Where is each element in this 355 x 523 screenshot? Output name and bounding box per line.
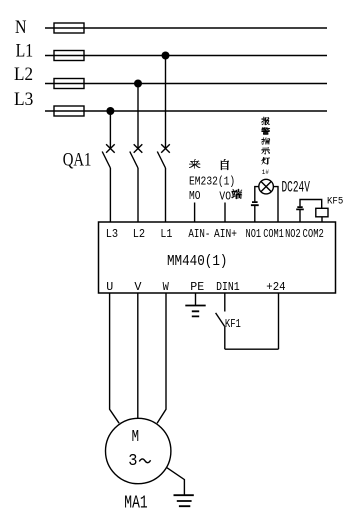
wire bus to QA1 pole 2 <box>137 84 139 150</box>
svg-text:MM440(1): MM440(1) <box>167 254 228 270</box>
label 报警指示灯 (vertical) <box>262 117 270 164</box>
wire QA1 pole 2 to box <box>137 168 139 222</box>
converter MM440(1) box <box>99 222 336 293</box>
svg-text:NO1: NO1 <box>246 227 262 241</box>
label 来 <box>189 160 200 169</box>
svg-text:COM1: COM1 <box>263 227 284 241</box>
junction L1 tap <box>162 52 170 60</box>
fuse on N <box>54 23 84 33</box>
svg-text:L1: L1 <box>160 227 172 241</box>
wire DIN1 down <box>224 293 226 312</box>
battery cell B2 plates <box>296 207 304 209</box>
bus N <box>45 27 327 29</box>
char 示 <box>262 147 270 154</box>
ground PE <box>185 306 205 317</box>
svg-text:+24: +24 <box>266 280 285 294</box>
motor MA1 circle <box>106 418 171 483</box>
wire battery to KF5 <box>300 200 322 209</box>
svg-text:COM2: COM2 <box>303 227 324 241</box>
svg-text:W: W <box>163 280 170 294</box>
breaker QA1 pole 1 contact x <box>106 144 115 153</box>
svg-text:L3: L3 <box>14 89 33 110</box>
svg-text:L2: L2 <box>133 227 145 241</box>
svg-text:N: N <box>15 17 27 38</box>
svg-text:L3: L3 <box>106 227 118 241</box>
wire QA1 pole 3 to box <box>165 168 167 222</box>
svg-text:NO2: NO2 <box>285 227 301 241</box>
wire up to +24 <box>278 293 280 349</box>
wire NO2 up to battery <box>299 210 301 222</box>
svg-text:MO: MO <box>189 190 201 203</box>
svg-text:EM232(1): EM232(1) <box>189 175 235 188</box>
junction L3 tap <box>106 107 114 115</box>
svg-text:V: V <box>134 280 142 294</box>
svg-text:PE: PE <box>190 280 204 294</box>
breaker QA1 pole 3 contact x <box>161 144 170 153</box>
fuse on L1 <box>54 51 84 61</box>
battery cell B1 plates <box>251 202 259 205</box>
svg-text:L2: L2 <box>14 64 33 85</box>
svg-text:U: U <box>106 280 113 294</box>
svg-text:KF1: KF1 <box>225 317 241 331</box>
label 自 <box>221 159 229 170</box>
wire W to motor <box>157 293 166 423</box>
svg-text:KF5: KF5 <box>327 195 343 207</box>
wire V to motor <box>137 293 139 418</box>
svg-text:M: M <box>132 428 139 447</box>
char 指 <box>262 138 270 145</box>
wire bottom run <box>225 348 279 350</box>
fuse on L2 <box>54 79 84 89</box>
wire PE down <box>195 293 197 306</box>
relay coil KF5 <box>316 208 328 217</box>
lamp HL1 <box>259 179 274 194</box>
contact KF1 blade <box>216 313 225 327</box>
breaker QA1 pole 3 blade <box>157 152 165 169</box>
wire VO to AIN+ <box>224 203 226 223</box>
char 报 <box>262 117 270 125</box>
bus L1 <box>45 55 327 57</box>
label 端 <box>232 189 242 199</box>
char 灯 <box>262 157 270 164</box>
wire MO to AIN- <box>194 203 196 223</box>
svg-text:QA1: QA1 <box>63 149 92 170</box>
wire U to motor <box>110 293 120 423</box>
wire NO1 up to battery <box>254 206 256 222</box>
wire bus to QA1 pole 3 <box>165 56 167 150</box>
wire lamp to COM1 <box>273 187 278 222</box>
fuse on L3 <box>54 106 84 116</box>
breaker QA1 pole 1 blade <box>102 152 110 169</box>
svg-text:L1: L1 <box>16 41 33 62</box>
wire battery to lamp <box>255 187 259 202</box>
svg-text:MA1: MA1 <box>124 493 147 513</box>
svg-text:DIN1: DIN1 <box>216 280 240 294</box>
wire motor to earth <box>167 468 185 496</box>
svg-text:3: 3 <box>128 452 137 471</box>
svg-text:AIN+: AIN+ <box>214 227 237 241</box>
wire KF1 to bottom run <box>224 326 226 349</box>
ground motor earth <box>174 495 194 506</box>
breaker QA1 pole 2 blade <box>130 152 138 169</box>
breaker QA1 pole 2 contact x <box>134 144 143 153</box>
wire QA1 pole 1 to box <box>109 168 111 222</box>
svg-text:DC24V: DC24V <box>282 178 311 196</box>
wire bus to QA1 pole 1 <box>109 111 111 149</box>
junction L2 tap <box>134 80 142 88</box>
wire KF5 to COM2 <box>321 217 323 222</box>
svg-text:AIN-: AIN- <box>188 227 210 241</box>
bus L2 <box>45 83 327 85</box>
svg-text:VO: VO <box>219 191 231 204</box>
bus L3 <box>45 110 327 112</box>
char 警 <box>262 128 270 135</box>
svg-text:1#: 1# <box>262 169 269 176</box>
